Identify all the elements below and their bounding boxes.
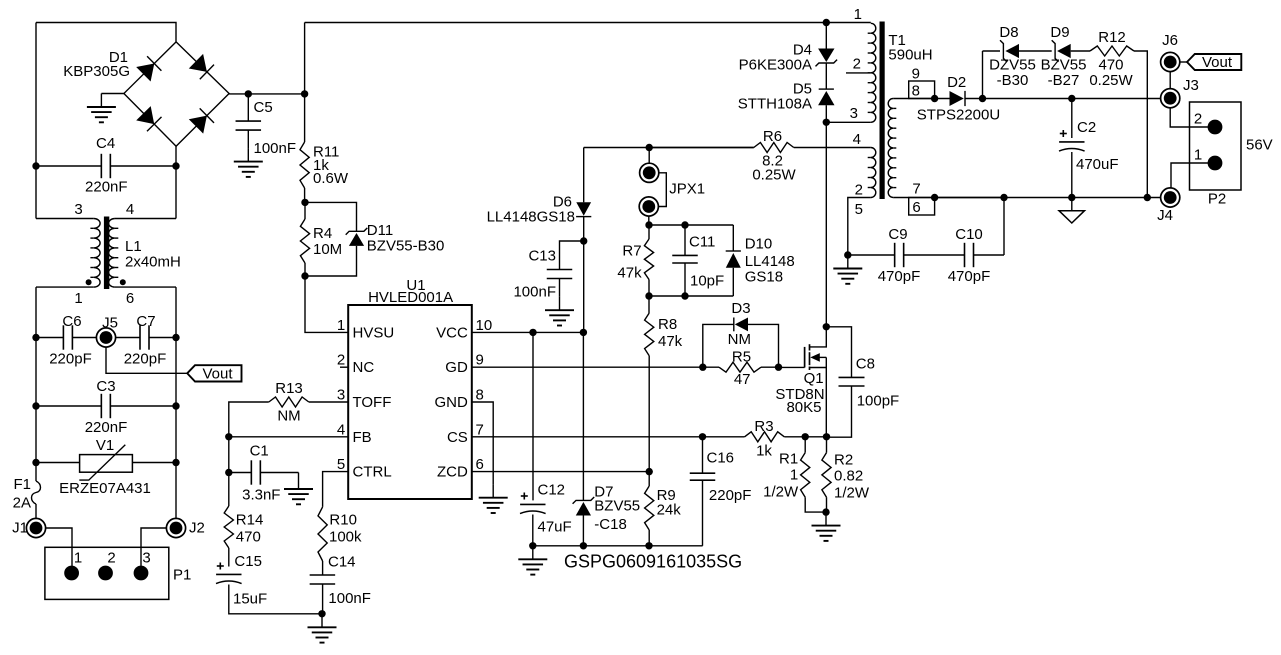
node C3 left bbox=[32, 402, 39, 409]
wire x=176 C4 to L1 bbox=[175, 166, 177, 219]
T1 primary lower winding bbox=[871, 148, 876, 198]
TVS diode D4 bbox=[818, 49, 834, 63]
svg-text:-B27: -B27 bbox=[1048, 72, 1080, 89]
T1 secondary winding bbox=[888, 99, 893, 198]
varistor V1 stroke bbox=[79, 445, 125, 480]
diode D3 bbox=[733, 318, 735, 332]
node C1 row bbox=[225, 469, 232, 476]
node C16 top bbox=[699, 433, 706, 440]
svg-text:470pF: 470pF bbox=[878, 268, 921, 285]
svg-text:47uF: 47uF bbox=[538, 518, 572, 535]
svg-text:47k: 47k bbox=[658, 333, 683, 350]
svg-text:ZCD: ZCD bbox=[437, 464, 468, 481]
svg-text:C6: C6 bbox=[62, 313, 81, 330]
svg-text:8: 8 bbox=[476, 387, 484, 404]
capacitor C4 bbox=[100, 154, 102, 178]
svg-text:10pF: 10pF bbox=[690, 273, 724, 290]
node ZCD junction bbox=[646, 468, 653, 475]
svg-text:56V: 56V bbox=[1246, 137, 1273, 154]
capacitor C7 bbox=[139, 325, 141, 349]
svg-text:R6: R6 bbox=[763, 128, 782, 145]
svg-text:4: 4 bbox=[853, 131, 861, 148]
svg-text:2: 2 bbox=[107, 550, 115, 567]
connector JPX1 top bbox=[640, 163, 659, 182]
svg-text:J4: J4 bbox=[1157, 207, 1173, 224]
ground triangle C2 bbox=[1071, 198, 1073, 211]
svg-text:6: 6 bbox=[126, 290, 134, 307]
svg-text:R5: R5 bbox=[732, 349, 751, 366]
svg-text:9: 9 bbox=[912, 66, 920, 83]
svg-text:220nF: 220nF bbox=[85, 419, 128, 436]
svg-text:C12: C12 bbox=[538, 482, 566, 499]
svg-text:BZV55-B30: BZV55-B30 bbox=[367, 238, 445, 255]
svg-text:100pF: 100pF bbox=[857, 393, 900, 410]
wire C9 row bbox=[848, 254, 895, 256]
connector J5 bbox=[96, 328, 115, 347]
node C11 top bbox=[681, 221, 688, 228]
wire D8 row left bbox=[983, 50, 1001, 52]
zener D9 bbox=[1052, 40, 1059, 62]
wire R5 right lead bbox=[761, 366, 779, 368]
wire R1 bottom bbox=[805, 497, 826, 512]
svg-text:C4: C4 bbox=[96, 135, 115, 152]
wire C5 node to R11 bbox=[304, 94, 306, 142]
node Q1 drain bbox=[823, 323, 830, 330]
bridge diode upper-right bbox=[189, 54, 207, 72]
wire C12 bottom bbox=[532, 515, 534, 546]
T1 bottom lead bbox=[848, 198, 871, 256]
wire J6 to flag bbox=[1180, 61, 1187, 63]
svg-text:5: 5 bbox=[337, 456, 345, 473]
svg-text:R2: R2 bbox=[834, 452, 853, 469]
resistor R1 bbox=[804, 437, 806, 453]
svg-text:-B30: -B30 bbox=[997, 72, 1029, 89]
wire L1 bottom-left lead bbox=[36, 286, 94, 288]
wire R7 bottom bbox=[648, 280, 650, 297]
svg-text:5: 5 bbox=[855, 201, 863, 218]
node R12 bottom bbox=[1144, 194, 1151, 201]
svg-text:3: 3 bbox=[74, 201, 82, 218]
wire GND pin bbox=[472, 402, 493, 484]
svg-text:D8: D8 bbox=[999, 24, 1018, 41]
wire C1 row bbox=[229, 472, 252, 474]
node R7 top bbox=[645, 221, 652, 228]
connector P2 body bbox=[1190, 102, 1242, 190]
wire R8 lead bbox=[648, 296, 650, 313]
resistor R14 bbox=[228, 473, 230, 507]
svg-text:P1: P1 bbox=[173, 567, 191, 584]
svg-text:7: 7 bbox=[476, 421, 484, 438]
svg-text:GS18: GS18 bbox=[745, 268, 783, 285]
resistor R13 bbox=[269, 397, 309, 407]
svg-text:D2: D2 bbox=[947, 74, 966, 91]
svg-text:3: 3 bbox=[142, 550, 150, 567]
svg-text:R12: R12 bbox=[1098, 29, 1126, 46]
wire C4 row bbox=[36, 165, 101, 167]
varistor V1 body bbox=[80, 455, 133, 473]
svg-text:100nF: 100nF bbox=[513, 284, 556, 301]
resistor R5 bbox=[719, 362, 761, 372]
ground below C5 bbox=[247, 148, 249, 162]
svg-text:NM: NM bbox=[277, 408, 300, 425]
svg-text:C14: C14 bbox=[328, 554, 356, 571]
node JPX1 top bbox=[646, 144, 653, 151]
wire sec top lead bbox=[893, 98, 949, 100]
P1 pin 3 bbox=[134, 566, 149, 581]
svg-text:R10: R10 bbox=[329, 511, 357, 528]
wire D6 column bbox=[583, 148, 585, 203]
connector J6 bbox=[1161, 52, 1180, 71]
wire R7 bottom row bbox=[649, 295, 733, 297]
zener D7 bbox=[573, 497, 595, 504]
svg-text:R4: R4 bbox=[313, 225, 332, 242]
resistor R7 bbox=[644, 239, 653, 280]
svg-text:J2: J2 bbox=[189, 520, 205, 537]
svg-text:220pF: 220pF bbox=[49, 351, 92, 368]
svg-text:NM: NM bbox=[728, 331, 751, 348]
svg-text:1/2W: 1/2W bbox=[834, 484, 870, 501]
svg-text:GND: GND bbox=[434, 394, 468, 411]
svg-text:ERZE07A431: ERZE07A431 bbox=[59, 480, 151, 497]
wire C3 row bbox=[36, 405, 101, 407]
svg-text:HVSU: HVSU bbox=[353, 324, 395, 341]
svg-text:STPS2200U: STPS2200U bbox=[917, 107, 1000, 124]
svg-text:J6: J6 bbox=[1162, 32, 1178, 49]
svg-text:JPX1: JPX1 bbox=[669, 181, 705, 198]
wire R7-C11 row bbox=[649, 224, 733, 226]
svg-text:CS: CS bbox=[447, 429, 468, 446]
wire R10 to C14 bbox=[322, 561, 324, 575]
node V1 right bbox=[172, 459, 179, 466]
svg-text:47k: 47k bbox=[617, 264, 642, 281]
inductor L1 left winding bbox=[94, 219, 100, 288]
svg-text:C15: C15 bbox=[234, 553, 262, 570]
svg-text:GSPG0609161035SG: GSPG0609161035SG bbox=[564, 552, 742, 572]
node C6 left bbox=[32, 334, 39, 341]
svg-text:GD: GD bbox=[445, 359, 468, 376]
wire CS bbox=[472, 436, 745, 438]
node R5 right bbox=[775, 364, 782, 371]
svg-text:C1: C1 bbox=[250, 442, 269, 459]
resistor R6 bbox=[754, 143, 794, 153]
svg-text:100nF: 100nF bbox=[328, 590, 371, 607]
svg-text:F1: F1 bbox=[13, 476, 31, 493]
node C2 top bbox=[1068, 95, 1075, 102]
wire GD bbox=[472, 366, 703, 368]
wire D4-D5 bbox=[825, 63, 827, 89]
node C11 bottom bbox=[681, 292, 688, 299]
svg-text:8: 8 bbox=[912, 83, 920, 100]
transistor Q1 channel bbox=[809, 344, 811, 350]
svg-text:C3: C3 bbox=[96, 378, 115, 395]
ground below R1R2 bbox=[825, 512, 827, 526]
svg-text:R1: R1 bbox=[779, 451, 798, 468]
wire R13 col to C1 row bbox=[228, 437, 230, 473]
wire x=36 L1 to C6 row bbox=[35, 287, 37, 337]
wire bridge bottom to C4 row bbox=[175, 146, 177, 166]
T1 pins 7/6 box bbox=[909, 198, 935, 216]
wire ZCD bbox=[472, 471, 649, 473]
svg-text:470: 470 bbox=[236, 529, 261, 546]
svg-text:6: 6 bbox=[476, 456, 484, 473]
wire J5 to Vout flag bbox=[106, 338, 187, 374]
capacitor C12 bbox=[520, 503, 545, 505]
svg-text:R7: R7 bbox=[622, 243, 641, 260]
wire J1 to P1 pin1 bbox=[46, 528, 72, 573]
wire D7 to rail bbox=[582, 516, 584, 546]
ground below C14 bbox=[321, 614, 323, 628]
node FB-R13 bbox=[225, 433, 232, 440]
wire C10 up bbox=[1003, 198, 1005, 256]
svg-text:D10: D10 bbox=[745, 235, 773, 252]
bridge diode lower-right bbox=[189, 116, 207, 134]
svg-text:C7: C7 bbox=[136, 313, 155, 330]
capacitor C16 bbox=[702, 437, 704, 473]
T1 primary upper winding bbox=[871, 23, 876, 122]
wire FB bbox=[229, 436, 348, 438]
wire R12 right bbox=[1134, 51, 1147, 198]
bridge rectifier D1 outline bbox=[124, 42, 229, 146]
node C4 left bbox=[32, 162, 39, 169]
svg-text:C8: C8 bbox=[856, 356, 875, 373]
svg-text:9: 9 bbox=[476, 352, 484, 369]
wire left column x=36 (top to C4 node) bbox=[35, 23, 37, 167]
wire R11 column top bbox=[304, 23, 306, 94]
capacitor C9 bbox=[894, 243, 896, 267]
svg-text:C9: C9 bbox=[888, 226, 907, 243]
svg-text:KBP305G: KBP305G bbox=[63, 63, 130, 80]
svg-text:P2: P2 bbox=[1208, 191, 1226, 208]
bridge diode lower-left bbox=[136, 106, 154, 124]
fuse F1 bbox=[32, 481, 41, 504]
svg-text:J1: J1 bbox=[12, 520, 28, 537]
svg-text:10M: 10M bbox=[313, 241, 342, 258]
transistor Q1 gate bar bbox=[804, 347, 806, 368]
svg-text:R8: R8 bbox=[658, 316, 677, 333]
svg-text:LL4148GS18: LL4148GS18 bbox=[487, 209, 575, 226]
svg-text:0.25W: 0.25W bbox=[1089, 72, 1133, 89]
wire D3 loop bbox=[703, 324, 734, 367]
wire R11 to node bbox=[304, 188, 306, 202]
T1 pin2 tap bbox=[846, 72, 871, 74]
svg-text:C11: C11 bbox=[689, 233, 715, 250]
wire D8-D9 bbox=[1019, 50, 1052, 52]
svg-text:D11: D11 bbox=[367, 222, 393, 239]
svg-text:100k: 100k bbox=[329, 529, 362, 546]
svg-text:24k: 24k bbox=[657, 502, 682, 519]
wire aux row y=147.5 bbox=[584, 147, 754, 149]
wire D7 column bbox=[582, 332, 584, 500]
inductor L1 core bbox=[104, 217, 109, 290]
wire bottom rail (C12-C16) bbox=[533, 545, 703, 547]
bridge diode upper-left bbox=[136, 64, 154, 82]
node V1 left bbox=[32, 459, 39, 466]
node R1-R2 gnd bbox=[822, 508, 829, 515]
svg-text:L1: L1 bbox=[125, 238, 142, 255]
node R4 bottom bbox=[301, 272, 308, 279]
wire x=36 C4 to L1 bbox=[35, 166, 37, 219]
svg-text:1: 1 bbox=[74, 290, 82, 307]
svg-text:470uF: 470uF bbox=[1076, 156, 1119, 173]
zener D8 bbox=[1000, 40, 1007, 62]
wire C8 bottom bbox=[827, 386, 852, 437]
node D7 bottom bbox=[580, 542, 587, 549]
capacitor C1 bbox=[250, 460, 252, 484]
svg-text:220pF: 220pF bbox=[124, 351, 167, 368]
wire TOFF to R13 bbox=[309, 401, 348, 403]
resistor R10 bbox=[318, 507, 327, 561]
capacitor C6 bbox=[62, 325, 64, 349]
svg-text:1: 1 bbox=[790, 466, 798, 483]
node R11 top junction bbox=[301, 90, 308, 97]
resistor R9 bbox=[648, 472, 650, 486]
capacitor C2 bbox=[1071, 99, 1073, 139]
svg-text:10: 10 bbox=[476, 317, 493, 334]
transformer T1 core bbox=[880, 22, 885, 200]
wire bridge right to C5 node bbox=[229, 93, 305, 95]
diode D5 bbox=[819, 88, 834, 90]
node R1 top bbox=[802, 433, 809, 440]
node sec top bbox=[931, 95, 938, 102]
wire L1 top-left lead bbox=[36, 218, 94, 220]
svg-text:2: 2 bbox=[337, 352, 345, 369]
ground C1 bbox=[298, 473, 300, 476]
wire bottom output rail bbox=[935, 197, 1161, 199]
svg-text:CTRL: CTRL bbox=[353, 464, 392, 481]
svg-text:D9: D9 bbox=[1050, 24, 1069, 41]
svg-text:1: 1 bbox=[1194, 147, 1202, 164]
wire J3 to P2 pin2 bbox=[1170, 98, 1215, 127]
node C5 junction bbox=[245, 90, 252, 97]
wire D6 to VCC node bbox=[583, 217, 585, 333]
svg-text:2: 2 bbox=[1194, 111, 1202, 128]
svg-text:3: 3 bbox=[337, 387, 345, 404]
svg-text:2: 2 bbox=[853, 56, 861, 73]
node R9 bottom bbox=[645, 542, 652, 549]
P2 pin 2 bbox=[1208, 120, 1223, 135]
wire bridge left vertex to ground bbox=[101, 93, 124, 95]
wire C13 to ground bbox=[559, 279, 561, 297]
wire R4 to node bbox=[304, 263, 306, 276]
svg-text:J3: J3 bbox=[1183, 77, 1199, 94]
wire R7 bbox=[648, 225, 650, 239]
svg-text:4: 4 bbox=[337, 421, 345, 438]
wire x=36 C3 to V1 row bbox=[35, 406, 37, 463]
wire VCC rail bbox=[472, 331, 584, 333]
svg-text:0.25W: 0.25W bbox=[752, 167, 796, 184]
svg-text:2x40mH: 2x40mH bbox=[125, 254, 181, 271]
svg-text:4: 4 bbox=[126, 201, 134, 218]
ground below C13 bbox=[559, 297, 561, 311]
svg-text:1: 1 bbox=[854, 6, 862, 23]
transistor Q1 drain lead bbox=[810, 327, 827, 347]
svg-text:R13: R13 bbox=[275, 380, 303, 397]
wire x=176 C3 to V1 row bbox=[175, 406, 177, 463]
resistor R4 bbox=[300, 219, 309, 263]
wire C13 branch bbox=[560, 241, 584, 269]
wire P2 pin1 to J4 bbox=[1171, 163, 1215, 188]
P2 pin 1 bbox=[1208, 156, 1223, 171]
transistor Q1 body arrow bbox=[820, 356, 827, 358]
wire node to R4 bbox=[304, 202, 306, 219]
wire R2 bottom bbox=[826, 497, 828, 512]
wire L1 bottom-right lead bbox=[115, 286, 176, 288]
wire fuse to J1 bbox=[35, 504, 37, 519]
wire HVSU feed bbox=[305, 276, 348, 332]
svg-text:100nF: 100nF bbox=[254, 140, 297, 157]
wire x=176 L1 to C7 row bbox=[175, 287, 177, 337]
phase dot L1 right bbox=[120, 279, 126, 285]
connector JPX1 bottom bbox=[639, 197, 658, 216]
connector J2 bbox=[166, 518, 185, 537]
wire R13 left bbox=[229, 402, 269, 437]
svg-text:R14: R14 bbox=[236, 512, 264, 529]
wire sec bottom lead bbox=[893, 197, 1004, 199]
svg-text:C16: C16 bbox=[707, 450, 735, 467]
wire J6-J3 bbox=[1169, 62, 1171, 98]
P1 pin 1 bbox=[64, 566, 79, 581]
svg-text:3: 3 bbox=[850, 105, 858, 122]
svg-text:7: 7 bbox=[912, 181, 920, 198]
svg-text:R3: R3 bbox=[754, 418, 773, 435]
wire x=176 C7 to C3 row bbox=[175, 338, 177, 407]
svg-text:Vout: Vout bbox=[202, 365, 233, 382]
svg-text:D3: D3 bbox=[731, 300, 750, 317]
svg-text:BZV55: BZV55 bbox=[1041, 57, 1087, 74]
svg-text:1/2W: 1/2W bbox=[763, 483, 799, 500]
node C12 gnd rail bbox=[529, 542, 536, 549]
svg-text:C13: C13 bbox=[528, 248, 556, 265]
svg-text:2A: 2A bbox=[13, 495, 31, 512]
connector J4 bbox=[1161, 188, 1180, 207]
wire JPX1 bottom stub bbox=[648, 216, 650, 225]
svg-text:3.3nF: 3.3nF bbox=[242, 487, 280, 504]
svg-text:1k: 1k bbox=[756, 443, 772, 460]
wire JPX1 top stub bbox=[648, 148, 650, 164]
U1 pin2 NC stub bbox=[340, 366, 348, 368]
wire R6 row bbox=[649, 147, 754, 149]
wire D9 to R12 bbox=[1071, 50, 1090, 52]
capacitor C10 bbox=[964, 243, 966, 267]
svg-text:6: 6 bbox=[912, 199, 920, 216]
svg-text:Vout: Vout bbox=[1202, 54, 1233, 71]
node C7 right bbox=[172, 334, 179, 341]
diode D10 bbox=[732, 225, 734, 251]
node R5 left bbox=[699, 364, 706, 371]
connector J3 bbox=[1161, 89, 1180, 108]
svg-text:HVLED001A: HVLED001A bbox=[368, 289, 453, 306]
resistor R11 bbox=[300, 142, 309, 188]
node R4 top bbox=[301, 199, 308, 206]
node VCC-D6 bbox=[580, 329, 587, 336]
wire C15 bottom bbox=[229, 585, 322, 614]
svg-text:-C18: -C18 bbox=[594, 516, 627, 533]
node C14 bottom bbox=[318, 610, 325, 617]
ground below C12 bbox=[532, 546, 534, 560]
capacitor C8 bbox=[839, 376, 865, 378]
resistor R2 bbox=[826, 437, 828, 453]
node R2 top bbox=[823, 433, 830, 440]
wire J2 to P1 pin3 bbox=[141, 528, 166, 573]
wire R8 to ZCD node bbox=[648, 356, 650, 472]
svg-text:FB: FB bbox=[353, 429, 372, 446]
wire C14 bottom bbox=[322, 584, 324, 614]
ground sec left bbox=[847, 255, 849, 269]
node C4 right bbox=[172, 162, 179, 169]
capacitor C5 bbox=[247, 94, 249, 121]
capacitor C14 bbox=[310, 574, 336, 576]
svg-text:2: 2 bbox=[855, 182, 863, 199]
